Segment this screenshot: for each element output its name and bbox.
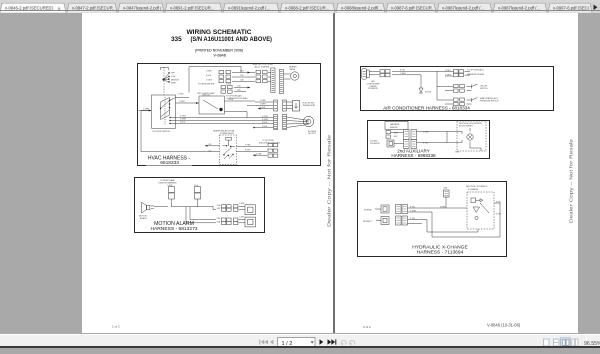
svg-text:14A: 14A bbox=[217, 220, 221, 223]
svg-text:7 PNK: 7 PNK bbox=[245, 145, 251, 147]
svg-text:HARNESS - 7113694: HARNESS - 7113694 bbox=[417, 250, 464, 256]
svg-text:14B: 14B bbox=[217, 208, 221, 210]
svg-text:Dealer Copy -- Not for Resale: Dealer Copy -- Not for Resale bbox=[327, 134, 332, 227]
svg-text:HIGH: HIGH bbox=[171, 83, 176, 85]
svg-text:POTENTIOMETER: POTENTIOMETER bbox=[198, 84, 215, 86]
svg-text:BLK: BLK bbox=[394, 136, 398, 138]
svg-text:2nd AUX: 2nd AUX bbox=[370, 139, 378, 142]
svg-text:1 WHT: 1 WHT bbox=[445, 74, 452, 76]
svg-text:HARNESS: HARNESS bbox=[390, 123, 400, 126]
svg-text:GND: GND bbox=[455, 151, 460, 153]
svg-text:POWER RELAY: POWER RELAY bbox=[220, 132, 234, 135]
svg-text:(S/N A16U11001 AND ABOVE): (S/N A16U11001 AND ABOVE) bbox=[191, 36, 273, 43]
svg-text:3 ORG: 3 ORG bbox=[206, 80, 212, 82]
svg-text:6968338: 6968338 bbox=[390, 127, 397, 129]
svg-text:C01: C01 bbox=[208, 144, 211, 146]
svg-text:LOW: LOW bbox=[171, 76, 176, 78]
svg-text:TO OPTIONS (A/C): TO OPTIONS (A/C) bbox=[467, 68, 484, 71]
svg-text:C-E99: C-E99 bbox=[239, 217, 244, 219]
svg-text:V-0846: V-0846 bbox=[213, 54, 226, 58]
svg-text:6 BLU: 6 BLU bbox=[180, 122, 186, 124]
svg-text:X-CHANGE: X-CHANGE bbox=[468, 188, 479, 191]
svg-text:21B: 21B bbox=[217, 218, 221, 220]
svg-text:1 WHT: 1 WHT bbox=[400, 73, 407, 75]
svg-text:2 of 2: 2 of 2 bbox=[363, 325, 371, 329]
svg-text:SOLENOID: SOLENOID bbox=[370, 143, 380, 145]
svg-text:2 BLK: 2 BLK bbox=[226, 83, 232, 85]
svg-text:C06: C06 bbox=[240, 80, 243, 82]
svg-text:8 GRY: 8 GRY bbox=[245, 150, 251, 152]
svg-text:MEDIUM: MEDIUM bbox=[171, 79, 179, 81]
svg-text:ROCKER SWITCH: ROCKER SWITCH bbox=[153, 131, 171, 133]
svg-text:1 GRN: 1 GRN bbox=[143, 109, 149, 111]
svg-text:(DELUXE ACCESSORY): (DELUXE ACCESSORY) bbox=[259, 142, 280, 145]
svg-text:6 BLU: 6 BLU bbox=[262, 122, 268, 124]
svg-text:5 GRN: 5 GRN bbox=[180, 119, 186, 121]
svg-text:C-E98: C-E98 bbox=[239, 203, 244, 205]
svg-text:2 BLK: 2 BLK bbox=[262, 126, 268, 128]
svg-text:DEUTSCH / HYDRAULIC: DEUTSCH / HYDRAULIC bbox=[466, 185, 488, 188]
svg-text:MOTION ALARM: MOTION ALARM bbox=[154, 221, 194, 227]
svg-text:C4I9: C4I9 bbox=[443, 187, 447, 189]
svg-text:PRESSURE SWITCH: PRESSURE SWITCH bbox=[480, 101, 499, 103]
svg-text:2 BLK: 2 BLK bbox=[260, 107, 266, 109]
svg-text:C06: C06 bbox=[237, 90, 240, 92]
svg-text:HARNESS - 6813273: HARNESS - 6813273 bbox=[150, 226, 197, 232]
svg-text:WIRING SCHEMATIC: WIRING SCHEMATIC bbox=[186, 29, 251, 36]
svg-text:(A/C/C JUMPER): (A/C/C JUMPER) bbox=[255, 65, 270, 68]
svg-text:6 YEL: 6 YEL bbox=[400, 70, 405, 72]
svg-text:SWITCH: SWITCH bbox=[202, 94, 210, 96]
svg-text:C04: C04 bbox=[240, 71, 243, 73]
svg-text:Dealer Copy -- Not for Resale: Dealer Copy -- Not for Resale bbox=[569, 138, 574, 223]
svg-text:THERMOSTAT: THERMOSTAT bbox=[303, 104, 317, 107]
svg-text:EXTEND: EXTEND bbox=[364, 209, 372, 211]
svg-text:1 of 2: 1 of 2 bbox=[112, 324, 120, 328]
svg-text:HARNESS 6818333: HARNESS 6818333 bbox=[467, 73, 484, 76]
svg-text:21A: 21A bbox=[217, 204, 221, 207]
svg-text:AIR CONDITIONER HARNESS - 6818: AIR CONDITIONER HARNESS - 6818334 bbox=[383, 105, 470, 110]
svg-text:4 ORG: 4 ORG bbox=[262, 116, 268, 118]
svg-text:RETRACT: RETRACT bbox=[363, 220, 373, 223]
svg-text:VALVE: VALVE bbox=[290, 68, 297, 71]
svg-text:(PRINTED NOVEMBER 2006): (PRINTED NOVEMBER 2006) bbox=[195, 49, 243, 53]
svg-text:HARNESS - 6968338: HARNESS - 6968338 bbox=[391, 153, 436, 158]
svg-text:1 RED: 1 RED bbox=[206, 71, 212, 73]
svg-text:SOLENOID: SOLENOID bbox=[368, 88, 378, 90]
svg-text:DIODE: DIODE bbox=[425, 91, 432, 93]
svg-text:COMPRESSOR SIGNAL): COMPRESSOR SIGNAL) bbox=[226, 97, 248, 100]
svg-text:C02: C02 bbox=[208, 150, 211, 152]
svg-text:4 ORG: 4 ORG bbox=[180, 116, 186, 118]
svg-text:335: 335 bbox=[171, 36, 182, 43]
svg-text:V-0846 (10-31-06): V-0846 (10-31-06) bbox=[487, 323, 521, 328]
svg-text:2 PNK: 2 PNK bbox=[260, 100, 266, 102]
svg-text:4 YEL: 4 YEL bbox=[496, 213, 501, 215]
svg-text:OFF: OFF bbox=[171, 73, 176, 75]
svg-text:MOTOR: MOTOR bbox=[309, 133, 317, 135]
svg-text:BOOM OFFSET: BOOM OFFSET bbox=[459, 126, 474, 128]
svg-text:C-E98: C-E98 bbox=[167, 185, 172, 187]
svg-text:SWITCH: SWITCH bbox=[480, 88, 488, 90]
svg-text:7 WHT: 7 WHT bbox=[179, 101, 186, 103]
svg-text:C05: C05 bbox=[237, 86, 240, 88]
svg-text:5 GRN: 5 GRN bbox=[262, 119, 268, 121]
svg-text:1 WHT: 1 WHT bbox=[260, 104, 267, 106]
svg-text:6818333: 6818333 bbox=[160, 160, 179, 166]
svg-text:2 RED: 2 RED bbox=[445, 70, 451, 72]
svg-text:C05: C05 bbox=[240, 75, 243, 77]
svg-text:ALARM: ALARM bbox=[140, 217, 147, 220]
svg-text:2 PNK: 2 PNK bbox=[256, 153, 262, 155]
svg-text:HEATER: HEATER bbox=[289, 66, 297, 69]
svg-text:1 RED: 1 RED bbox=[178, 94, 184, 96]
svg-text:2 BLK: 2 BLK bbox=[206, 75, 212, 77]
